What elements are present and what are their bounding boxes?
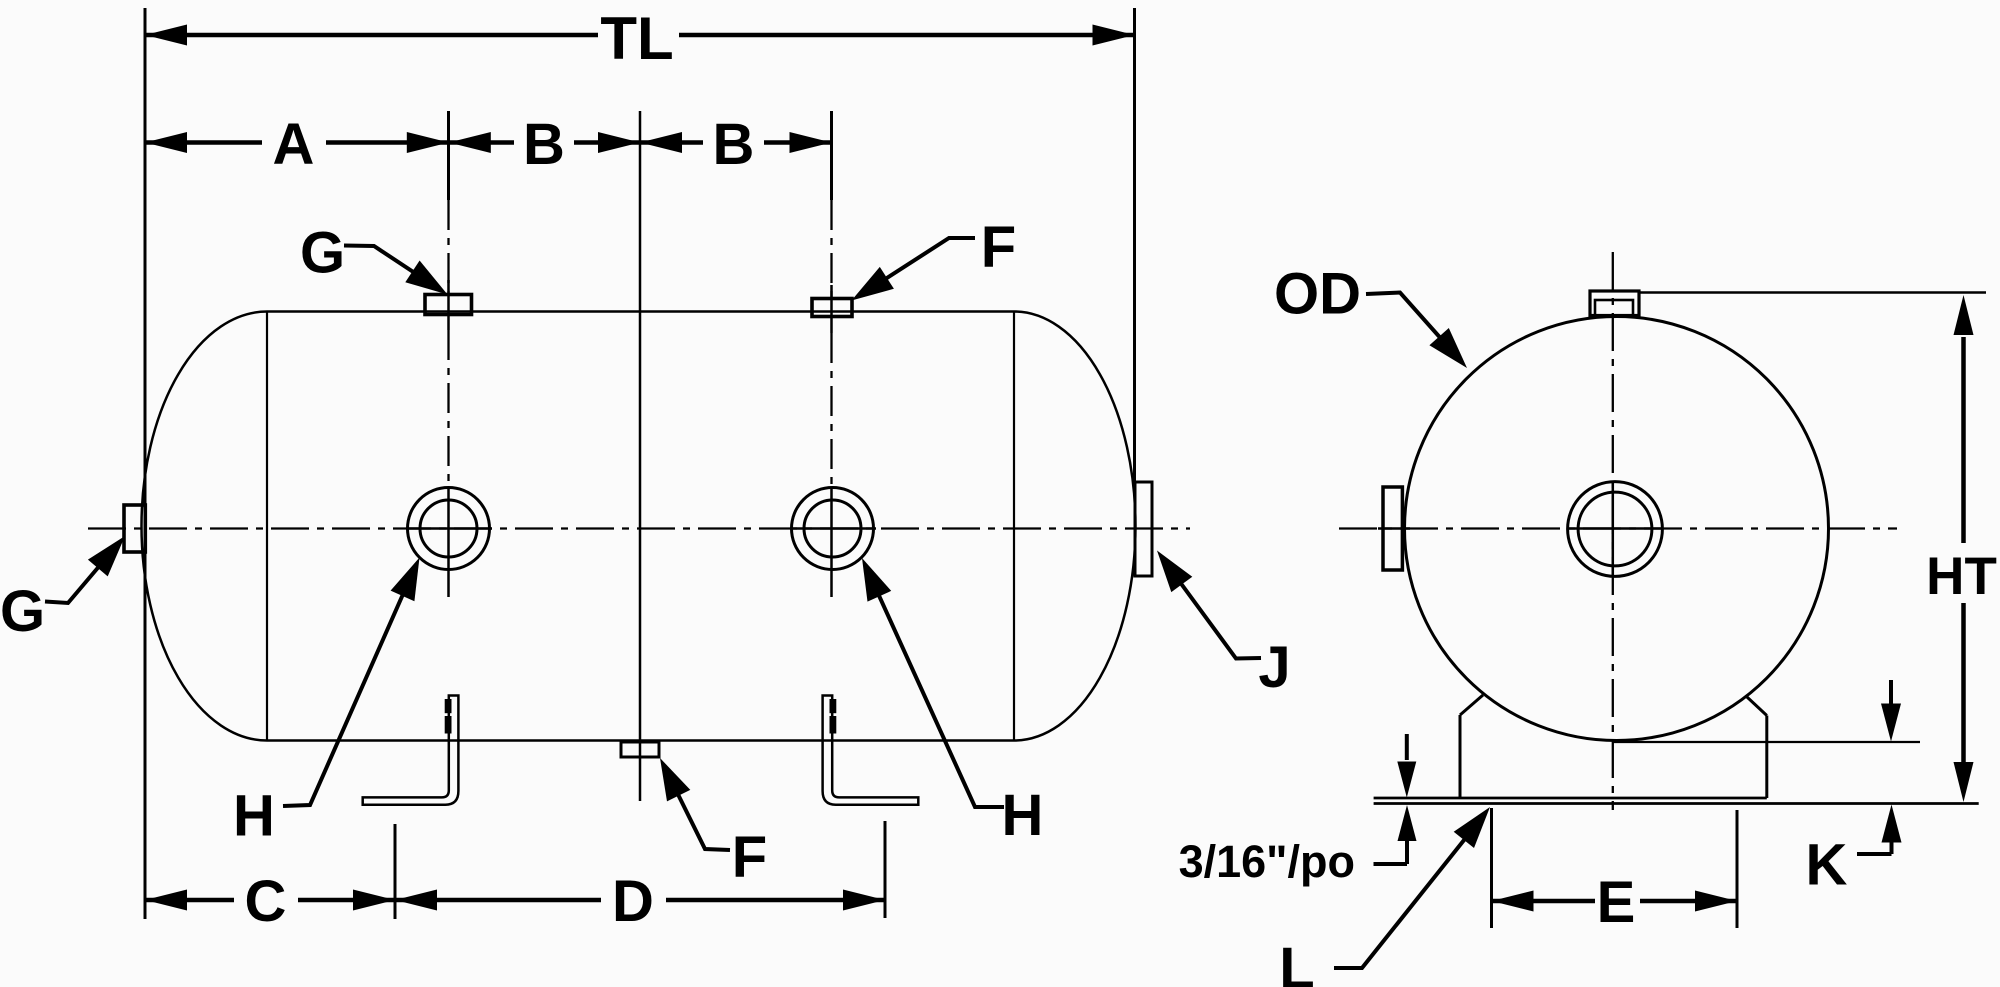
svg-text:H: H <box>1002 783 1044 848</box>
end view left flange <box>1383 487 1402 570</box>
label OD with leader <box>1274 262 1467 369</box>
dimension B right <box>640 112 832 177</box>
svg-text:G: G <box>0 579 45 644</box>
leg bracket right <box>823 696 919 805</box>
dimension A <box>145 112 449 177</box>
port H circle 2 <box>792 488 874 570</box>
mid centerline vertical <box>639 111 642 801</box>
end view center port circles <box>1568 482 1663 577</box>
svg-text:F: F <box>981 215 1016 280</box>
port G left end (coupling) <box>124 505 145 552</box>
svg-text:D: D <box>612 869 654 934</box>
dimension K arrows <box>1857 680 1902 854</box>
svg-text:G: G <box>300 221 345 286</box>
dimension E <box>1492 870 1738 935</box>
dimension 3/16 arrows <box>1374 734 1417 864</box>
svg-text:C: C <box>245 869 287 934</box>
port F top (coupling) <box>812 299 852 317</box>
svg-text:E: E <box>1597 870 1636 935</box>
end view top port <box>1590 291 1639 316</box>
weld seam right <box>1013 312 1015 741</box>
svg-text:TL: TL <box>600 5 673 72</box>
label F bottom with leader <box>660 758 767 890</box>
port J right end (coupling) <box>1135 482 1152 576</box>
label L with leader <box>1279 807 1490 987</box>
svg-text:J: J <box>1258 635 1290 700</box>
svg-text:B: B <box>523 112 565 177</box>
port F centerline vertical <box>830 111 833 597</box>
end view centerline horizontal <box>1339 527 1897 529</box>
extension line left datum <box>144 8 147 919</box>
tank end circle (OD) <box>1405 317 1829 741</box>
end view centerline vertical <box>1612 252 1614 810</box>
svg-text:HT: HT <box>1926 547 1997 606</box>
label G top with leader <box>300 221 448 295</box>
label F top with leader <box>852 215 1017 301</box>
label H left with leader <box>233 558 419 849</box>
svg-text:B: B <box>713 112 755 177</box>
svg-text:3/16"/po: 3/16"/po <box>1179 836 1355 887</box>
dimension C <box>145 869 395 934</box>
svg-text:OD: OD <box>1274 262 1361 327</box>
svg-text:A: A <box>273 112 315 177</box>
dimension D <box>395 869 885 934</box>
dimension HT <box>1926 295 1997 802</box>
svg-text:H: H <box>233 784 275 849</box>
label J with leader <box>1157 551 1291 701</box>
extension line E left <box>1490 808 1493 928</box>
extension line HT top <box>1639 291 1986 294</box>
extension line C/D separator <box>394 824 397 919</box>
tank centerline horizontal <box>88 527 1190 529</box>
extension line E right <box>1736 810 1739 928</box>
port G centerline vertical <box>447 111 450 597</box>
extension line D right <box>884 821 887 918</box>
svg-text:L: L <box>1279 936 1314 987</box>
saddle base <box>1374 695 1979 804</box>
port F bottom (drain) <box>621 742 659 757</box>
port G top (coupling) <box>425 295 472 315</box>
weld seam left <box>266 312 268 741</box>
label G left with leader <box>0 536 125 644</box>
svg-text:F: F <box>732 825 767 890</box>
dimension TL <box>145 5 1135 72</box>
label H right with leader <box>862 558 1043 848</box>
svg-text:K: K <box>1806 833 1848 898</box>
leg bracket left <box>363 696 459 805</box>
dimension B left <box>449 112 640 177</box>
circle bottom tangent line <box>1612 741 1920 743</box>
tank shell (side view) <box>142 312 1136 741</box>
extension line right (TL) <box>1133 8 1136 482</box>
port H circle 1 <box>408 488 490 570</box>
